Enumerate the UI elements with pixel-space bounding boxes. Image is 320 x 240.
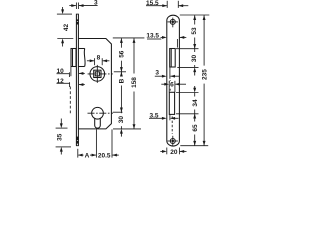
svg-text:13.5: 13.5: [146, 33, 159, 40]
svg-text:B: B: [118, 78, 125, 83]
svg-text:30: 30: [118, 116, 125, 124]
svg-text:30: 30: [191, 55, 198, 63]
svg-text:20.5: 20.5: [98, 152, 111, 159]
svg-text:6: 6: [170, 82, 174, 89]
svg-text:3: 3: [94, 0, 98, 7]
svg-text:15.5: 15.5: [146, 0, 159, 7]
svg-text:3: 3: [155, 70, 159, 77]
svg-text:8: 8: [97, 55, 101, 62]
svg-text:56: 56: [119, 50, 126, 58]
svg-text:12: 12: [57, 78, 65, 85]
svg-text:42: 42: [63, 24, 70, 32]
svg-text:10: 10: [57, 68, 65, 75]
svg-text:A: A: [85, 152, 90, 159]
svg-text:3.5: 3.5: [150, 113, 159, 120]
svg-text:53: 53: [191, 27, 198, 35]
svg-text:35: 35: [56, 133, 63, 141]
svg-text:34: 34: [192, 99, 199, 107]
svg-text:235: 235: [201, 69, 208, 80]
svg-text:20: 20: [170, 149, 178, 156]
svg-text:65: 65: [192, 124, 199, 132]
svg-text:158: 158: [131, 77, 138, 88]
